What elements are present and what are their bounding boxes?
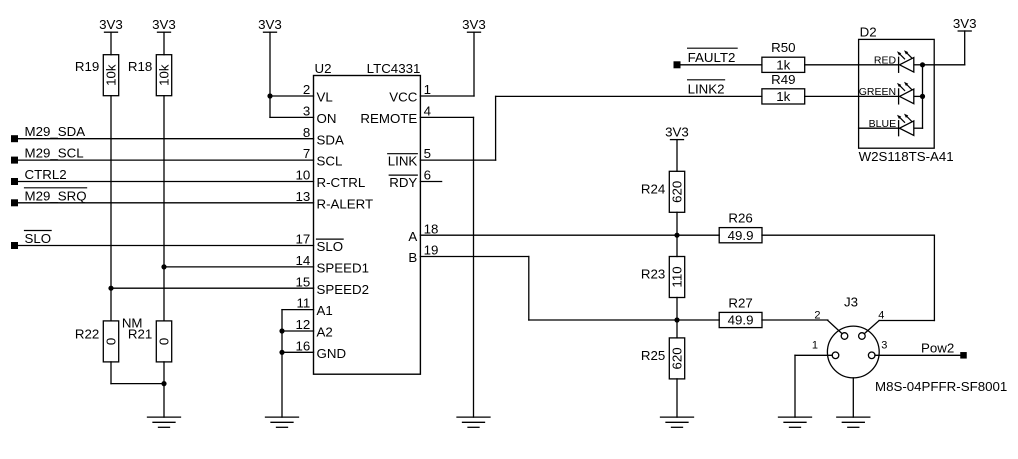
svg-text:3: 3 [881,340,887,352]
svg-text:R19: R19 [75,59,99,74]
svg-text:REMOTE: REMOTE [360,111,417,126]
svg-text:2: 2 [303,82,310,97]
svg-text:R26: R26 [728,211,752,226]
svg-text:110: 110 [670,266,685,287]
svg-text:1k: 1k [776,89,790,104]
svg-text:0: 0 [104,338,119,345]
svg-text:Pow2: Pow2 [921,340,954,355]
svg-text:0: 0 [157,338,172,345]
svg-text:A2: A2 [317,325,333,340]
svg-text:8: 8 [303,125,310,140]
svg-text:R18: R18 [128,59,152,74]
svg-text:D2: D2 [860,24,877,39]
svg-text:1: 1 [424,82,431,97]
svg-text:BLUE: BLUE [869,118,896,130]
svg-text:18: 18 [424,221,439,236]
svg-text:A: A [408,229,417,244]
svg-text:J3: J3 [844,295,858,310]
svg-text:10: 10 [296,168,311,183]
svg-text:R23: R23 [641,267,665,282]
svg-text:4: 4 [424,104,431,119]
svg-text:14: 14 [296,253,311,268]
svg-text:R49: R49 [771,72,795,87]
svg-text:NM: NM [122,316,143,331]
svg-text:VL: VL [317,90,333,105]
svg-text:3V3: 3V3 [953,16,977,31]
svg-text:7: 7 [303,146,310,161]
svg-text:6: 6 [424,168,431,183]
svg-text:R24: R24 [641,181,665,196]
svg-text:M29_SDA: M29_SDA [25,124,86,139]
svg-text:M29_SRQ: M29_SRQ [25,188,87,203]
svg-text:R27: R27 [728,295,752,310]
svg-text:B: B [408,250,417,265]
svg-text:SLO: SLO [317,239,344,254]
svg-text:15: 15 [296,274,311,289]
svg-text:RED: RED [874,55,897,67]
svg-text:FAULT2: FAULT2 [688,50,736,65]
svg-text:LTC4331: LTC4331 [367,61,421,76]
svg-text:U2: U2 [315,61,332,76]
svg-text:SLO: SLO [25,231,52,246]
svg-text:LINK: LINK [388,154,418,169]
svg-text:R50: R50 [771,40,795,55]
svg-text:3V3: 3V3 [462,17,486,32]
svg-text:3V3: 3V3 [99,17,123,32]
svg-text:620: 620 [670,181,685,203]
svg-text:CTRL2: CTRL2 [25,167,67,182]
svg-text:SPEED2: SPEED2 [317,282,369,297]
svg-text:W2S118TS-A41: W2S118TS-A41 [859,149,954,164]
svg-text:3V3: 3V3 [152,17,176,32]
svg-text:RDY: RDY [389,175,417,190]
svg-text:SPEED1: SPEED1 [317,261,369,276]
svg-text:GREEN: GREEN [859,86,896,98]
svg-text:M8S-04PFFR-SF8001: M8S-04PFFR-SF8001 [875,379,1007,394]
svg-text:12: 12 [296,317,311,332]
svg-text:SDA: SDA [317,132,344,147]
svg-text:LINK2: LINK2 [688,81,725,96]
svg-text:17: 17 [296,232,311,247]
svg-text:R25: R25 [641,348,665,363]
svg-text:A1: A1 [317,303,333,318]
svg-text:49.9: 49.9 [728,228,754,243]
svg-text:16: 16 [296,338,311,353]
svg-text:ON: ON [317,111,337,126]
svg-text:VCC: VCC [389,90,417,105]
svg-text:GND: GND [317,346,347,361]
svg-text:1: 1 [812,340,818,352]
svg-text:3V3: 3V3 [665,124,689,139]
svg-text:R-ALERT: R-ALERT [317,196,374,211]
svg-text:620: 620 [670,347,685,369]
svg-text:5: 5 [424,146,431,161]
svg-text:10k: 10k [157,64,172,86]
svg-text:11: 11 [296,296,310,311]
svg-text:1k: 1k [776,58,790,73]
svg-text:R-CTRL: R-CTRL [317,175,366,190]
svg-text:M29_SCL: M29_SCL [25,146,84,161]
svg-text:R22: R22 [75,327,99,342]
svg-text:3: 3 [303,104,310,119]
svg-text:13: 13 [296,189,311,204]
svg-text:49.9: 49.9 [728,313,754,328]
svg-text:4: 4 [878,309,884,321]
svg-text:19: 19 [424,243,439,258]
svg-text:SCL: SCL [317,154,343,169]
svg-text:2: 2 [814,309,820,321]
svg-text:10k: 10k [104,64,119,86]
svg-text:3V3: 3V3 [258,17,282,32]
